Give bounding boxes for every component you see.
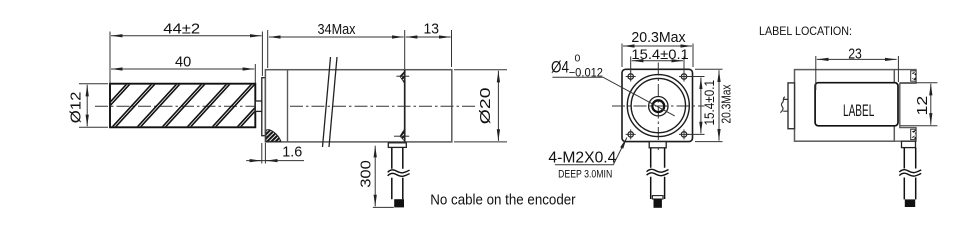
cable flange view1 (388, 143, 406, 148)
dim 300 extension (373, 206, 394, 208)
svg-text:20.3Max: 20.3Max (719, 84, 734, 123)
screw top view1 (396, 72, 409, 84)
broken shaft stub view3 (780, 97, 788, 113)
heading text (759, 24, 852, 38)
thread hatch lines (87, 84, 280, 128)
dim 20.3Max top line (623, 45, 692, 47)
dim 15.4 top text (631, 46, 689, 62)
dim 20.3Max top text (631, 29, 686, 46)
svg-text:34Max: 34Max (318, 21, 356, 38)
pilot circle outer (627, 75, 689, 137)
svg-text:−0.012: −0.012 (569, 65, 604, 79)
label text (843, 101, 874, 120)
screw bottom view1 (394, 129, 409, 141)
cable view2 (651, 148, 665, 199)
svg-text:13: 13 (424, 20, 440, 37)
svg-text:1.6: 1.6 (282, 143, 302, 160)
dim 20.3Max top extension (622, 44, 693, 68)
cable view1 (392, 147, 403, 199)
dim 15.4 right text (701, 80, 717, 126)
dim 34Max extension (268, 30, 405, 69)
svg-text:40: 40 (175, 54, 191, 71)
dim 1.6 extension (262, 143, 266, 164)
cable connector step view2 (652, 196, 663, 199)
dim 40 extension line (110, 32, 255, 84)
dim 15.4 top line (632, 60, 683, 62)
screw top view3 (911, 71, 916, 81)
dim 300 text (358, 160, 375, 188)
cable break wave view1 (388, 170, 410, 176)
washer plate 1.6 (262, 78, 266, 136)
encoder joint line (404, 70, 406, 142)
dim 13 extension (451, 30, 453, 67)
screw bottom view3 (911, 129, 916, 139)
svg-text:LABEL: LABEL (843, 101, 874, 120)
mounting hole BL (626, 129, 636, 139)
dim 20.3Max right extension (695, 69, 723, 141)
label sticker box (815, 83, 898, 126)
dim 34Max text (318, 21, 356, 38)
face square (622, 69, 693, 141)
svg-text:DEEP 3.0MIN: DEEP 3.0MIN (558, 168, 612, 180)
dim 15.4 right extension (687, 77, 705, 135)
mounting hole TL (626, 72, 636, 82)
svg-text:44±2: 44±2 (163, 21, 200, 38)
cable connector view3 (905, 199, 915, 207)
label M2 text (548, 149, 616, 166)
dim 15.4 top extension (631, 57, 684, 73)
dim phi20 line (497, 71, 499, 141)
cable flange view3 (902, 141, 916, 147)
dim 20.3Max right text (719, 84, 734, 123)
svg-text:No cable on the encoder: No cable on the encoder (430, 191, 575, 208)
svg-text:0: 0 (575, 53, 581, 65)
motor body outline (265, 70, 451, 142)
dim phi12 line (86, 85, 88, 127)
dim 20.3Max right line (718, 70, 720, 140)
dim 44±2 extension right (261, 32, 263, 77)
dim 40 line (111, 68, 254, 70)
dim 13 text (424, 20, 440, 37)
dim 40 text (175, 54, 191, 71)
svg-text:Ø12: Ø12 (68, 92, 85, 124)
svg-text:12: 12 (914, 96, 931, 116)
dim 1.6 line (246, 160, 304, 162)
shaft phi4 circle (652, 100, 664, 112)
centerline view1 (95, 105, 290, 107)
dim 300 line (374, 146, 376, 207)
shaft stub (255, 101, 261, 111)
dim 1.6 text (282, 143, 302, 160)
motor body side (795, 70, 895, 142)
dim 12 extension (900, 83, 937, 126)
label phi4 leader (552, 77, 674, 116)
centerlines view2 (612, 63, 705, 151)
dim 12 line (930, 84, 932, 125)
dim 23 text (848, 46, 862, 63)
cable flange view2 (649, 142, 666, 148)
break lines (323, 57, 338, 147)
encoder cap outline (894, 70, 916, 142)
dim 13 line (406, 36, 451, 38)
svg-text:4-M2X0.4: 4-M2X0.4 (548, 149, 616, 166)
note text (430, 191, 575, 208)
shaft boss circle (649, 97, 668, 116)
dim phi12 text (68, 92, 85, 124)
dim 12 text (914, 96, 931, 116)
svg-text:LABEL LOCATION:: LABEL LOCATION: (759, 24, 852, 38)
dim 34Max line (269, 36, 404, 38)
svg-text:15.4±0.1: 15.4±0.1 (631, 46, 689, 62)
dim 23 line (817, 58, 897, 60)
label phi4 text (551, 53, 603, 80)
dim phi12 extension lines (79, 84, 108, 128)
label M2 deep text (558, 168, 612, 180)
glue fillet wedge (266, 130, 281, 142)
cable view3 (904, 148, 915, 200)
svg-text:15.4±0.1: 15.4±0.1 (701, 80, 717, 126)
dim 23 extension (816, 56, 899, 90)
dim 15.4 right line (700, 78, 702, 134)
mounting hole BR (679, 129, 689, 139)
cable break wave view2 (647, 169, 669, 175)
shaft body (threaded worm shaft) (110, 84, 255, 128)
cable break wave view3 (899, 170, 921, 176)
cable connector view2 (654, 199, 662, 208)
svg-text:Ø20: Ø20 (477, 88, 494, 125)
svg-text:23: 23 (848, 46, 862, 63)
centerline over body (290, 105, 477, 107)
gearbox joint line (287, 70, 289, 142)
cable connector view1 (394, 199, 404, 207)
label M2 leader (555, 138, 627, 165)
pilot circle inner (631, 78, 685, 132)
shaft boss side view3 (788, 83, 795, 129)
dim 44±2 line (111, 35, 262, 37)
svg-text:20.3Max: 20.3Max (631, 29, 686, 46)
mounting hole TR (679, 72, 689, 82)
dim 44±2 text (163, 21, 200, 38)
dim phi20 text (477, 88, 494, 125)
svg-text:300: 300 (358, 160, 375, 188)
dim phi20 extension (454, 70, 507, 142)
svg-text:Ø4: Ø4 (551, 57, 569, 76)
